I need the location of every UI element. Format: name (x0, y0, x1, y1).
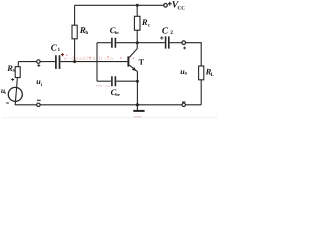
svg-text:T: T (139, 57, 145, 66)
svg-text:1: 1 (58, 47, 61, 53)
svg-text:b: b (85, 30, 88, 36)
svg-text:CC: CC (178, 6, 186, 12)
svg-text:be: be (115, 92, 119, 97)
svg-text:s: s (4, 90, 6, 95)
svg-text:w·dnanlun.lt·cn: w·dnanlun.lt·cn (64, 55, 114, 62)
svg-text:R: R (141, 17, 148, 27)
svg-text:S: S (13, 68, 16, 74)
svg-text:2: 2 (170, 30, 173, 36)
svg-text:C: C (162, 26, 169, 36)
svg-text:bc: bc (115, 30, 119, 35)
